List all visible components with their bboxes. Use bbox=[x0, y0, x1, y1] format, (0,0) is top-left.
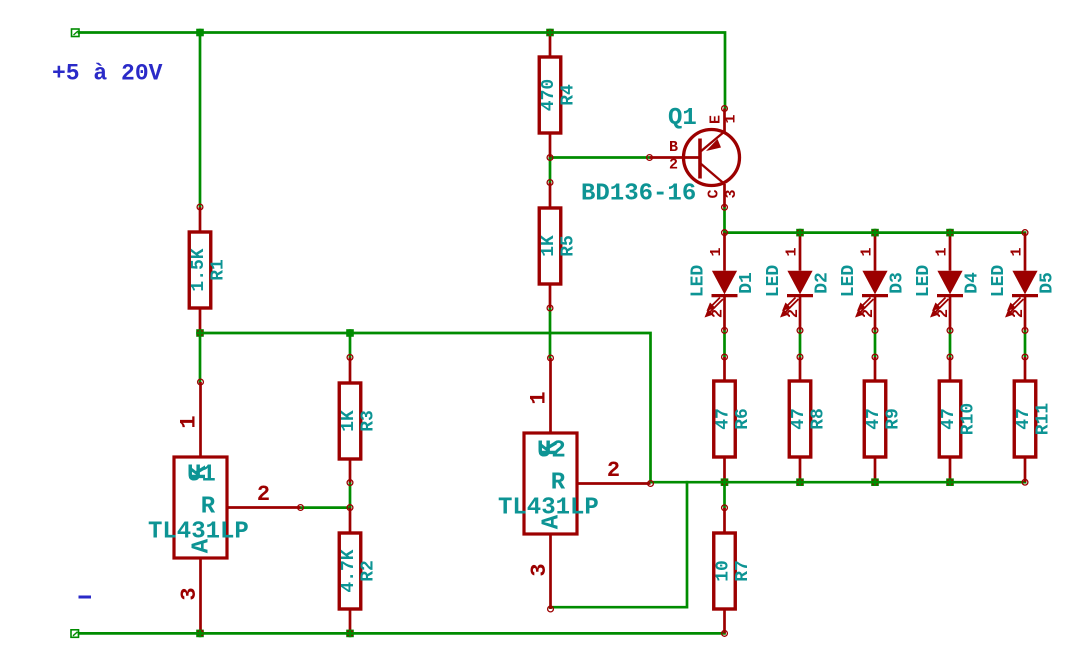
wire collector to LED bus bbox=[723, 207, 726, 232]
svg-text:R10: R10 bbox=[959, 403, 979, 435]
svg-text:C: C bbox=[706, 189, 723, 198]
svg-text:2: 2 bbox=[1010, 309, 1027, 318]
wire R5 bottom to U2 pin1 bbox=[549, 308, 552, 357]
power entry square top-left bbox=[72, 29, 80, 37]
junction cross overlay bbox=[196, 29, 204, 37]
svg-text:3: 3 bbox=[723, 189, 740, 198]
svg-text:LED: LED bbox=[914, 265, 934, 298]
junction cross overlay bbox=[196, 630, 204, 638]
LED D4 bbox=[914, 230, 983, 334]
junction return bus x875 bbox=[871, 478, 879, 486]
resistor R5 1K bbox=[539, 180, 579, 311]
svg-text:R4: R4 bbox=[559, 84, 579, 106]
wire D5 cathode to R11 bbox=[1024, 330, 1027, 357]
junction return bus x950 bbox=[946, 478, 954, 486]
wire R3 to R2 node bbox=[349, 483, 352, 508]
svg-text:47: 47 bbox=[1014, 408, 1034, 430]
LED D2 bbox=[764, 230, 833, 334]
junction bottom rail at R2 bbox=[346, 630, 354, 638]
wire R1 bottom to U1 pin1 bbox=[199, 333, 202, 382]
svg-text:D3: D3 bbox=[888, 272, 908, 294]
junction cross overlay bbox=[946, 229, 954, 237]
junction cross overlay bbox=[346, 630, 354, 638]
svg-text:BD136-16: BD136-16 bbox=[581, 181, 696, 208]
svg-text:R: R bbox=[201, 494, 216, 521]
svg-text:2: 2 bbox=[669, 157, 678, 174]
junction bottom rail at U1 pin3 bbox=[196, 630, 204, 638]
svg-text:3: 3 bbox=[527, 563, 552, 576]
svg-text:4.7K: 4.7K bbox=[339, 549, 359, 592]
LED D5 bbox=[989, 230, 1058, 334]
svg-text:D1: D1 bbox=[737, 272, 757, 294]
label minus bbox=[79, 596, 92, 599]
resistor R11 47 bbox=[1014, 354, 1054, 485]
junction mid wire at R3 top bbox=[346, 329, 354, 337]
svg-text:U1: U1 bbox=[187, 462, 216, 489]
svg-text:1: 1 bbox=[934, 247, 951, 256]
wire bottom ground rail bbox=[79, 632, 725, 635]
wire LED return bus bbox=[651, 481, 1026, 484]
junction cross overlay bbox=[796, 229, 804, 237]
svg-text:R: R bbox=[551, 470, 566, 497]
resistor R3 1K bbox=[339, 355, 379, 486]
wire LED anode bus bbox=[725, 231, 1026, 234]
wire return bus to R7 bbox=[723, 482, 726, 508]
svg-text:R1: R1 bbox=[209, 259, 229, 281]
resistor R6 47 bbox=[714, 354, 754, 485]
svg-text:TL431LP: TL431LP bbox=[498, 495, 599, 522]
wire R4 to R5 bbox=[549, 158, 552, 183]
junction anode bus x800 bbox=[796, 229, 804, 237]
svg-text:R11: R11 bbox=[1034, 403, 1054, 436]
svg-text:2: 2 bbox=[607, 458, 620, 483]
shunt regulator U1 TL431LP bbox=[148, 379, 303, 636]
svg-text:1: 1 bbox=[723, 114, 740, 123]
svg-text:3: 3 bbox=[177, 587, 202, 600]
wire mid horizontal net bbox=[200, 333, 651, 482]
junction cross overlay bbox=[346, 329, 354, 337]
svg-text:2: 2 bbox=[860, 309, 877, 318]
resistor R1 1.5K bbox=[189, 204, 229, 336]
wire R4 bottom to base bbox=[550, 156, 650, 159]
svg-text:R5: R5 bbox=[559, 235, 579, 257]
junction return bus x800 bbox=[796, 478, 804, 486]
svg-text:1: 1 bbox=[784, 247, 801, 256]
svg-text:D5: D5 bbox=[1038, 272, 1058, 294]
junction cross overlay bbox=[871, 478, 879, 486]
svg-text:LED: LED bbox=[764, 265, 784, 298]
svg-text:TL431LP: TL431LP bbox=[148, 519, 249, 546]
resistor R9 47 bbox=[864, 354, 904, 485]
svg-text:1: 1 bbox=[177, 415, 202, 428]
ground entry square bottom-left bbox=[71, 630, 79, 638]
svg-text:R8: R8 bbox=[809, 408, 829, 430]
junction cross overlay bbox=[721, 478, 729, 486]
svg-text:47: 47 bbox=[789, 408, 809, 430]
svg-text:2: 2 bbox=[257, 482, 270, 507]
junction cross overlay bbox=[196, 329, 204, 337]
svg-text:1: 1 bbox=[859, 247, 876, 256]
junction mid wire at R1 bottom bbox=[196, 329, 204, 337]
resistor R7 10 bbox=[714, 505, 754, 636]
svg-text:R6: R6 bbox=[733, 408, 753, 430]
wire D4 cathode to R10 bbox=[949, 330, 952, 357]
junction cross overlay bbox=[546, 29, 554, 37]
svg-text:LED: LED bbox=[989, 265, 1009, 298]
transistor Q1 BD136-16 bbox=[581, 105, 740, 210]
svg-text:10: 10 bbox=[714, 560, 734, 582]
svg-text:1: 1 bbox=[527, 391, 552, 404]
svg-text:U2: U2 bbox=[537, 438, 566, 465]
svg-text:Q1: Q1 bbox=[668, 105, 697, 132]
wire D2 cathode to R8 bbox=[799, 330, 802, 357]
svg-text:1: 1 bbox=[708, 247, 725, 256]
junction cross overlay bbox=[946, 478, 954, 486]
resistor R4 470 bbox=[539, 30, 579, 161]
junction anode bus x875 bbox=[871, 229, 879, 237]
svg-text:470: 470 bbox=[539, 79, 559, 111]
svg-text:2: 2 bbox=[935, 309, 952, 318]
svg-text:47: 47 bbox=[714, 408, 734, 430]
wire top supply rail bbox=[79, 33, 725, 109]
junction return bus x724.5 bbox=[721, 478, 729, 486]
resistor R8 47 bbox=[789, 354, 829, 485]
junction cross overlay bbox=[796, 478, 804, 486]
resistor R2 4.7K bbox=[339, 505, 379, 637]
svg-text:2: 2 bbox=[710, 309, 727, 318]
svg-text:47: 47 bbox=[939, 408, 959, 430]
svg-text:2: 2 bbox=[785, 309, 802, 318]
svg-text:LED: LED bbox=[839, 265, 859, 298]
LED D3 bbox=[839, 230, 908, 334]
svg-text:R7: R7 bbox=[733, 560, 753, 582]
svg-text:1: 1 bbox=[1009, 247, 1026, 256]
svg-text:1K: 1K bbox=[339, 410, 359, 432]
wire R3 top drop bbox=[349, 333, 352, 357]
wire left rail to R1 bbox=[199, 33, 202, 208]
junction cross overlay bbox=[871, 229, 879, 237]
svg-text:D2: D2 bbox=[813, 272, 833, 294]
svg-text:R9: R9 bbox=[884, 408, 904, 430]
resistor R10 47 bbox=[939, 354, 979, 485]
wire D3 cathode to R9 bbox=[874, 330, 877, 357]
svg-text:B: B bbox=[669, 139, 678, 156]
junction anode bus x950 bbox=[946, 229, 954, 237]
LED D1 bbox=[689, 230, 758, 334]
wire D1 cathode to R6 bbox=[723, 330, 726, 357]
svg-text:1K: 1K bbox=[539, 235, 559, 257]
shunt regulator U2 TL431LP bbox=[498, 355, 653, 612]
svg-text:D4: D4 bbox=[963, 272, 983, 294]
svg-text:47: 47 bbox=[864, 408, 884, 430]
svg-text:R3: R3 bbox=[359, 410, 379, 432]
junction top rail at R4 bbox=[546, 29, 554, 37]
svg-text:LED: LED bbox=[689, 265, 709, 298]
wire U2 pin3 to LED return bus bbox=[550, 482, 687, 607]
wire U1 pin2 to divider bbox=[300, 506, 350, 509]
svg-text:1.5K: 1.5K bbox=[189, 248, 209, 291]
svg-text:R2: R2 bbox=[359, 560, 379, 582]
junction top rail at R1 bbox=[196, 29, 204, 37]
svg-text:+5 à 20V: +5 à 20V bbox=[52, 61, 163, 87]
